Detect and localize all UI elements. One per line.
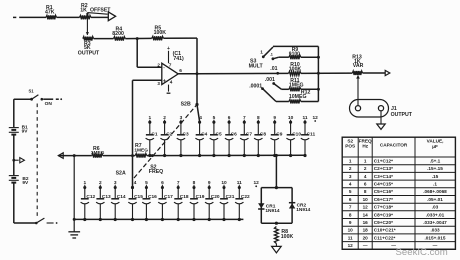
svg-text:C3+C14*: C3+C14* <box>374 174 393 179</box>
svg-text:ON: ON <box>45 101 53 107</box>
svg-text:7: 7 <box>349 205 352 210</box>
svg-text:1N914: 1N914 <box>265 208 279 214</box>
svg-text:9V: 9V <box>22 180 29 186</box>
svg-text:18: 18 <box>363 228 369 233</box>
svg-text:OUTPUT: OUTPUT <box>391 112 413 118</box>
svg-text:47K: 47K <box>45 10 55 16</box>
svg-text:1MEG: 1MEG <box>134 148 148 154</box>
svg-text:100K: 100K <box>281 234 294 240</box>
svg-text:+: + <box>163 78 166 84</box>
svg-text:.1: .1 <box>433 182 437 187</box>
svg-text:S2B: S2B <box>181 102 191 108</box>
svg-text:Hz: Hz <box>362 144 368 149</box>
svg-text:.15+.15: .15+.15 <box>427 166 443 171</box>
svg-text:100K: 100K <box>154 30 167 36</box>
svg-text:4: 4 <box>364 174 367 179</box>
svg-text:C21: C21 <box>226 194 235 200</box>
svg-text:C6+C17*: C6+C17* <box>374 197 393 202</box>
svg-text:12: 12 <box>254 180 260 186</box>
svg-text:3: 3 <box>349 174 352 179</box>
svg-text:8200: 8200 <box>112 31 124 37</box>
svg-text:C18: C18 <box>180 194 189 200</box>
svg-text:C2: C2 <box>166 131 172 137</box>
svg-text:.001: .001 <box>265 77 275 83</box>
svg-text:C15: C15 <box>134 194 143 200</box>
svg-text:.033: .033 <box>430 228 440 233</box>
svg-text:C5: C5 <box>216 131 222 137</box>
svg-text:POS: POS <box>345 144 355 149</box>
svg-text:C11: C11 <box>307 131 316 137</box>
svg-text:16: 16 <box>363 220 369 225</box>
svg-text:6: 6 <box>364 182 367 187</box>
svg-text:1K: 1K <box>80 7 87 13</box>
svg-text:.03: .03 <box>432 205 439 210</box>
svg-text:.05+.01: .05+.01 <box>427 197 443 202</box>
svg-text:9100: 9100 <box>289 51 300 57</box>
svg-text:—: — <box>363 243 368 248</box>
svg-text:μF: μF <box>432 144 438 149</box>
svg-text:10MEG: 10MEG <box>289 94 307 100</box>
svg-text:10: 10 <box>363 197 369 202</box>
svg-text:C16: C16 <box>148 194 157 200</box>
svg-text:.0001: .0001 <box>249 84 262 90</box>
svg-text:.015+.015: .015+.015 <box>425 235 446 240</box>
svg-text:12: 12 <box>348 243 354 248</box>
svg-text:1: 1 <box>364 158 367 163</box>
svg-text:C4: C4 <box>201 131 207 137</box>
svg-text:8: 8 <box>349 212 352 217</box>
svg-text:.068+.0068: .068+.0068 <box>423 189 447 194</box>
svg-text:C2+C13*: C2+C13* <box>374 166 393 171</box>
svg-text:C12: C12 <box>86 194 95 200</box>
svg-text:VAR: VAR <box>353 63 364 69</box>
svg-text:2: 2 <box>349 166 352 171</box>
svg-text:C9: C9 <box>276 131 282 137</box>
svg-text:11: 11 <box>348 235 353 240</box>
svg-text:.01: .01 <box>270 66 277 72</box>
svg-text:12: 12 <box>363 205 369 210</box>
svg-text:.033+.01: .033+.01 <box>426 212 445 217</box>
svg-text:.1: .1 <box>270 53 273 57</box>
svg-text:C1+C12*: C1+C12* <box>374 158 393 163</box>
svg-text:4: 4 <box>134 180 137 186</box>
svg-text:+: + <box>167 46 170 52</box>
svg-text:C8: C8 <box>260 131 266 137</box>
svg-text:C4+C15*: C4+C15* <box>374 182 393 187</box>
svg-text:1MEG: 1MEG <box>91 150 105 156</box>
svg-text:C10: C10 <box>292 131 301 137</box>
svg-text:C1: C1 <box>151 131 157 137</box>
svg-text:S2A: S2A <box>116 171 126 177</box>
svg-text:MULT: MULT <box>249 64 264 70</box>
svg-text:C11+C22*: C11+C22* <box>374 235 396 240</box>
svg-text:C10+C21*: C10+C21* <box>374 228 396 233</box>
svg-text:10: 10 <box>348 228 354 233</box>
svg-text:CAPACITOR: CAPACITOR <box>380 142 408 147</box>
svg-text:OUTPUT: OUTPUT <box>78 50 100 56</box>
svg-text:C17: C17 <box>164 194 173 200</box>
svg-text:9V: 9V <box>22 129 29 135</box>
svg-text:4: 4 <box>349 182 352 187</box>
svg-text:C19: C19 <box>196 194 205 200</box>
svg-text:C20: C20 <box>211 194 220 200</box>
svg-text:C14: C14 <box>117 194 126 200</box>
svg-text:C3: C3 <box>183 131 189 137</box>
svg-text:2: 2 <box>364 166 367 171</box>
svg-text:.5+.1: .5+.1 <box>430 158 441 163</box>
svg-text:4: 4 <box>170 79 173 85</box>
svg-text:7: 7 <box>169 63 172 69</box>
svg-text:1: 1 <box>260 49 263 55</box>
svg-text:C7+C18*: C7+C18* <box>374 205 393 210</box>
svg-text:C7: C7 <box>246 131 252 137</box>
svg-text:6: 6 <box>349 197 352 202</box>
svg-text:5: 5 <box>349 189 352 194</box>
svg-text:C6: C6 <box>231 131 237 137</box>
svg-text:S1: S1 <box>28 89 34 94</box>
svg-text:9: 9 <box>349 220 352 225</box>
svg-text:.033+.0047: .033+.0047 <box>423 220 447 225</box>
svg-text:741): 741) <box>173 56 184 62</box>
svg-text:.15: .15 <box>432 174 439 179</box>
svg-text:C5+C16*: C5+C16* <box>374 189 393 194</box>
svg-text:C13: C13 <box>102 194 111 200</box>
svg-text:C8+C19*: C8+C19* <box>374 212 393 217</box>
svg-text:20: 20 <box>363 235 369 240</box>
svg-text:1: 1 <box>349 158 352 163</box>
svg-text:C9+C20*: C9+C20* <box>374 220 393 225</box>
svg-text:100K: 100K <box>289 66 302 72</box>
svg-text:SeekIC.com: SeekIC.com <box>396 247 448 258</box>
svg-text:C22: C22 <box>241 194 250 200</box>
svg-text:1MEG: 1MEG <box>289 83 304 89</box>
svg-text:14: 14 <box>363 212 369 217</box>
svg-text:FREQ: FREQ <box>149 169 163 175</box>
svg-text:8: 8 <box>364 189 367 194</box>
svg-text:1N914: 1N914 <box>296 207 310 213</box>
